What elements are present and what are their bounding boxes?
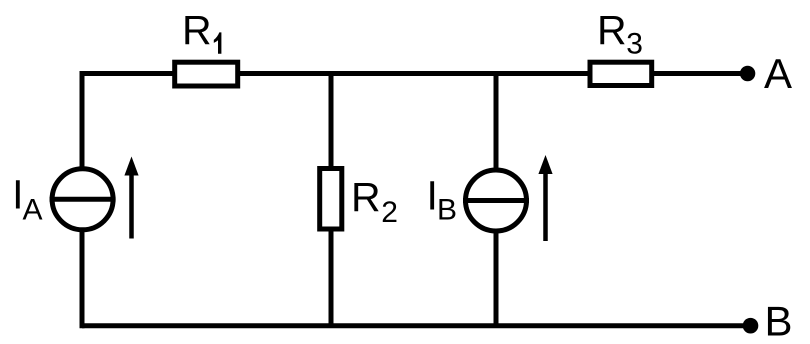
svg-text:B: B <box>765 298 793 344</box>
svg-text:2: 2 <box>381 196 398 229</box>
svg-text:3: 3 <box>626 28 643 61</box>
svg-text:A: A <box>764 50 792 97</box>
svg-text:R: R <box>351 174 381 220</box>
svg-text:R: R <box>597 7 627 53</box>
svg-text:A: A <box>23 194 43 227</box>
svg-text:R: R <box>182 7 212 53</box>
svg-text:B: B <box>437 193 457 226</box>
